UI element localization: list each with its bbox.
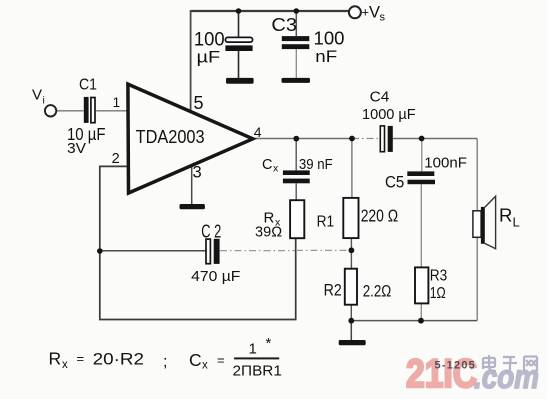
- svg-text:µF: µF: [197, 48, 221, 67]
- svg-text:100nF: 100nF: [424, 154, 467, 171]
- svg-text:C: C: [189, 350, 202, 370]
- svg-text:;: ;: [163, 354, 167, 371]
- svg-text:C1: C1: [79, 77, 97, 94]
- svg-text:x: x: [202, 360, 208, 372]
- svg-text:100: 100: [314, 29, 345, 49]
- svg-text:R3: R3: [430, 267, 448, 284]
- svg-text:s: s: [380, 11, 386, 23]
- svg-text:1000 µF: 1000 µF: [362, 106, 416, 123]
- svg-text:i: i: [43, 94, 45, 106]
- svg-text:39 nF: 39 nF: [299, 157, 333, 173]
- svg-text:nF: nF: [315, 47, 337, 66]
- svg-text:20·R2: 20·R2: [93, 350, 144, 369]
- svg-text:1: 1: [249, 341, 257, 358]
- svg-text:220 Ω: 220 Ω: [361, 206, 399, 226]
- svg-text:C4: C4: [370, 89, 390, 106]
- svg-text:2ΠBR1: 2ΠBR1: [233, 363, 282, 380]
- svg-text:TDA2003: TDA2003: [136, 126, 205, 147]
- svg-text:3: 3: [193, 164, 202, 182]
- svg-text:V: V: [32, 87, 42, 104]
- svg-text:x: x: [62, 359, 68, 371]
- svg-text:x: x: [273, 162, 279, 174]
- svg-text:2: 2: [112, 151, 120, 167]
- svg-text:+: +: [362, 5, 370, 20]
- svg-text:R: R: [499, 204, 512, 225]
- svg-text:=: =: [217, 353, 225, 368]
- svg-text:R1: R1: [317, 214, 335, 231]
- svg-text:C 2: C 2: [201, 222, 221, 242]
- svg-text:1Ω: 1Ω: [430, 285, 446, 302]
- svg-text:C5: C5: [385, 172, 404, 191]
- svg-text:470 µF: 470 µF: [191, 268, 240, 285]
- svg-text:5: 5: [194, 93, 204, 113]
- svg-text:*: *: [266, 335, 272, 352]
- svg-text:R2: R2: [324, 280, 342, 299]
- svg-text:39Ω: 39Ω: [255, 224, 282, 241]
- svg-text:4: 4: [254, 124, 262, 140]
- svg-text:L: L: [513, 214, 520, 229]
- svg-text:5-1205: 5-1205: [435, 359, 476, 371]
- svg-text:R: R: [49, 349, 62, 369]
- svg-text:=: =: [77, 351, 85, 366]
- svg-text:1: 1: [113, 95, 121, 110]
- svg-text:2.2Ω: 2.2Ω: [363, 282, 392, 301]
- svg-text:C: C: [262, 157, 272, 173]
- svg-text:C3: C3: [271, 15, 297, 35]
- svg-text:V: V: [369, 4, 380, 22]
- svg-text:3V: 3V: [67, 140, 86, 157]
